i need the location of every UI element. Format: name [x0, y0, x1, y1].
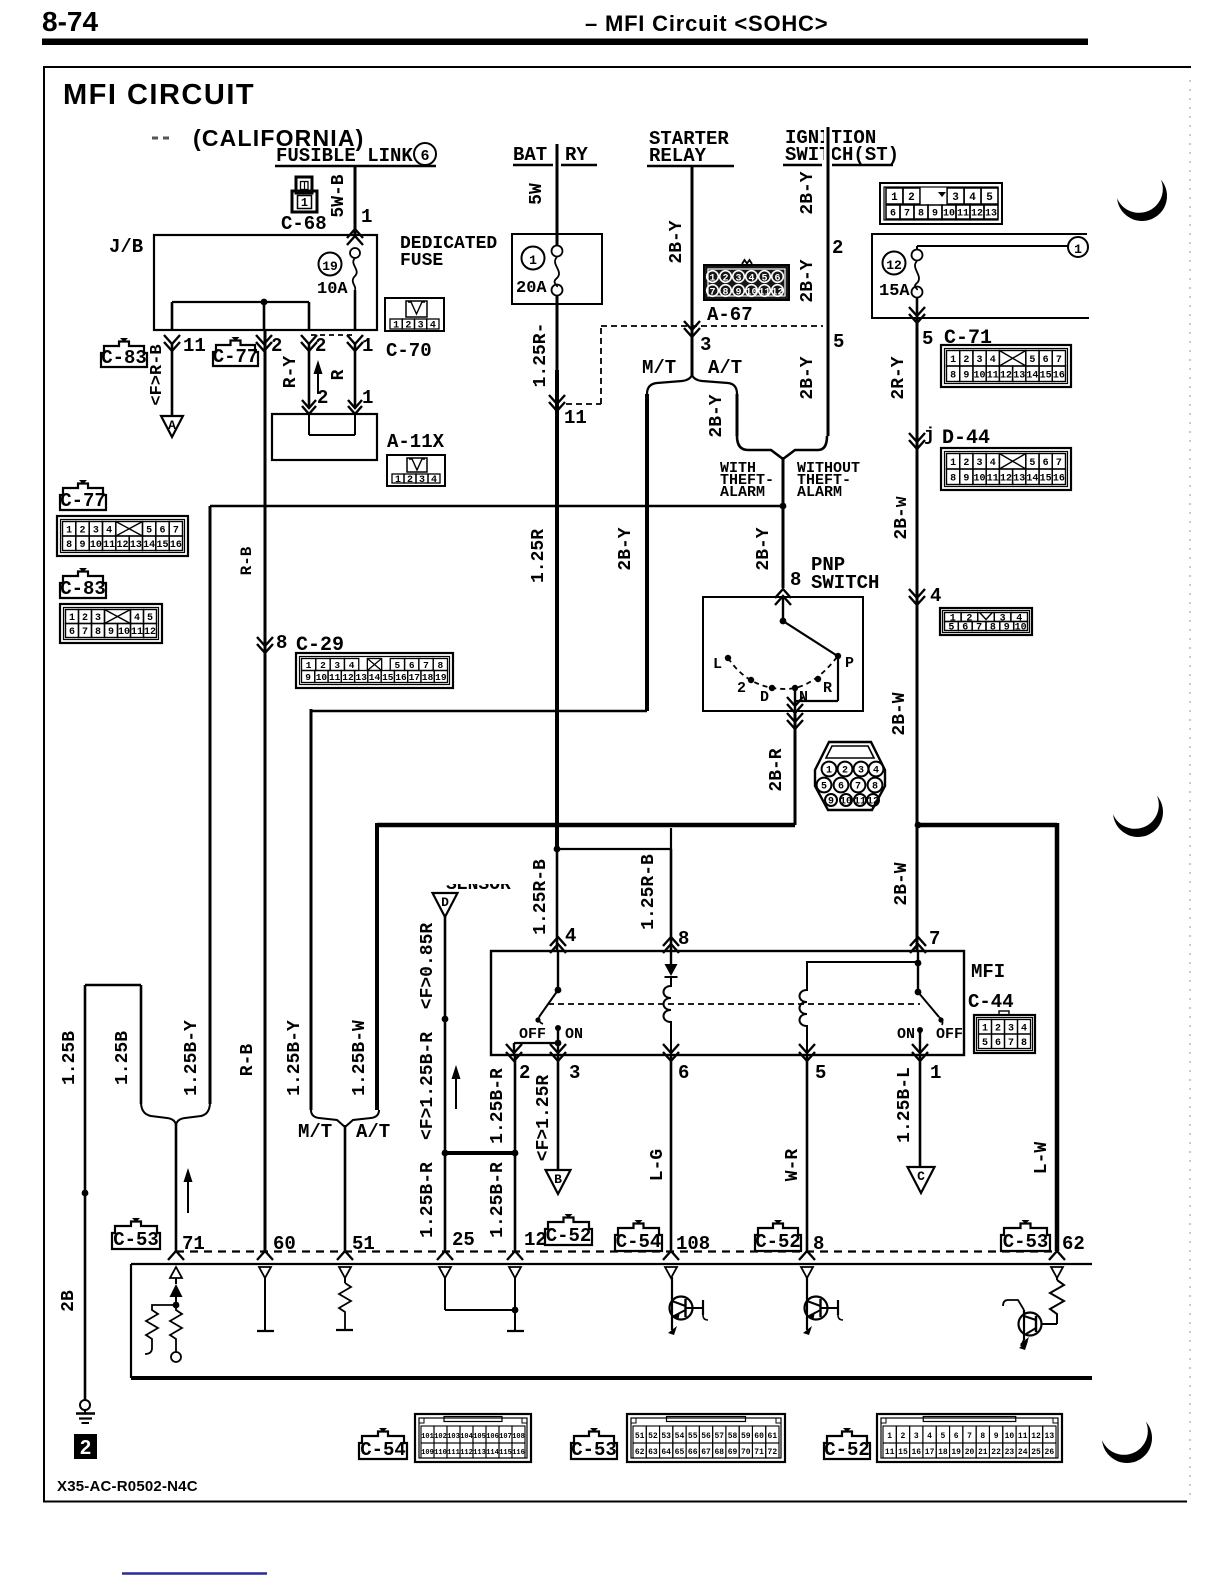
- fuse 12 element: [916, 246, 918, 250]
- svg-text:7: 7: [423, 660, 429, 671]
- svg-text:5W-B: 5W-B: [329, 174, 349, 217]
- MFI left switch pivot: [555, 987, 562, 994]
- svg-text:A-67: A-67: [707, 304, 753, 326]
- svg-text:R: R: [329, 369, 349, 380]
- svg-text:1.25B-L: 1.25B-L: [895, 1067, 915, 1143]
- PNP contact arc dashed: [728, 657, 837, 689]
- svg-text:A/T: A/T: [708, 357, 742, 379]
- connector label box C-52 big: [824, 1432, 870, 1460]
- arrow MFI pin6 out: [663, 1044, 679, 1053]
- svg-text:3: 3: [334, 660, 340, 671]
- svg-text:C-52: C-52: [755, 1231, 801, 1253]
- svg-text:11: 11: [1018, 1432, 1028, 1441]
- svg-text:70: 70: [741, 1448, 751, 1457]
- svg-text:11: 11: [758, 288, 770, 299]
- svg-text:1: 1: [709, 274, 715, 285]
- MFI OFF contact right: [938, 1017, 943, 1022]
- J/B wire pin2b drop: [308, 302, 311, 330]
- ECU resistor right: [170, 1305, 182, 1352]
- J/B wire pin11 drop: [171, 302, 174, 330]
- svg-text:19: 19: [322, 259, 338, 274]
- svg-text:8: 8: [276, 632, 287, 654]
- PNP contact 2: [748, 677, 754, 683]
- connector icon C-70: [385, 298, 444, 331]
- svg-text:C-83: C-83: [60, 578, 106, 600]
- binder punch hole bottom: [1102, 1413, 1152, 1463]
- wire 1.25B-L: [919, 1056, 922, 1167]
- svg-text:109: 109: [421, 1449, 434, 1457]
- svg-text:16: 16: [395, 672, 407, 683]
- svg-text:3: 3: [700, 334, 711, 356]
- svg-text:5: 5: [1029, 458, 1035, 469]
- svg-text:2: 2: [737, 680, 746, 697]
- svg-text:2: 2: [842, 765, 848, 776]
- PNP P wire down: [837, 656, 839, 701]
- svg-text:6: 6: [1043, 355, 1049, 366]
- svg-text:4: 4: [565, 925, 576, 947]
- ECU resistor 51: [339, 1283, 351, 1329]
- svg-text:ON: ON: [897, 1026, 915, 1043]
- svg-text:11: 11: [183, 335, 206, 357]
- svg-text:6: 6: [954, 1432, 959, 1441]
- svg-text:12: 12: [1000, 473, 1012, 484]
- svg-text:D: D: [441, 895, 449, 910]
- svg-text:1.25B-R: 1.25B-R: [488, 1162, 508, 1238]
- svg-text:6: 6: [409, 660, 415, 671]
- wire R-Y: [308, 344, 311, 406]
- svg-text:9: 9: [963, 370, 969, 381]
- svg-text:105: 105: [473, 1433, 486, 1441]
- svg-text:1: 1: [930, 1062, 941, 1084]
- svg-text:3: 3: [419, 475, 425, 486]
- svg-text:4: 4: [990, 355, 996, 366]
- svg-text:10: 10: [840, 796, 852, 807]
- svg-text:13: 13: [985, 209, 997, 220]
- svg-text:4: 4: [430, 321, 436, 332]
- svg-text:8: 8: [950, 473, 956, 484]
- arrow into A-11X pin1: [348, 400, 362, 408]
- svg-text:8-74: 8-74: [42, 6, 98, 37]
- svg-text:7: 7: [904, 209, 910, 220]
- wire F R-B to ground A: [171, 344, 174, 416]
- svg-text:C-53: C-53: [1003, 1231, 1049, 1253]
- svg-text:8: 8: [95, 627, 101, 638]
- svg-text:SWITCH(ST): SWITCH(ST): [785, 144, 899, 166]
- svg-text:2: 2: [908, 192, 915, 204]
- svg-text:12: 12: [971, 209, 983, 220]
- svg-text:23: 23: [1005, 1448, 1015, 1457]
- svg-text:SWITCH: SWITCH: [811, 572, 879, 594]
- ECU diode 71: [170, 1284, 183, 1297]
- wire 2B-R: [794, 711, 797, 825]
- svg-text:1: 1: [66, 525, 72, 536]
- connector label box C-52 right: [755, 1224, 801, 1252]
- page right edge faint line: [1189, 80, 1191, 1498]
- svg-text:5: 5: [940, 1432, 945, 1441]
- arrow up beside R-Y: [317, 370, 319, 394]
- wire bus to C-53 62: [918, 823, 1057, 828]
- junction block J/B box: [154, 235, 377, 330]
- svg-text:1: 1: [950, 458, 956, 469]
- svg-text:3: 3: [418, 321, 424, 332]
- svg-text:64: 64: [661, 1448, 671, 1457]
- svg-text:10: 10: [316, 672, 328, 683]
- svg-text:17: 17: [409, 672, 421, 683]
- ground triangle B: [546, 1170, 571, 1194]
- svg-text:11: 11: [564, 407, 587, 429]
- ECU terminal circle: [171, 1352, 181, 1362]
- svg-text:8: 8: [66, 540, 72, 551]
- svg-text:6: 6: [420, 148, 429, 165]
- connector label box C-54 mid: [615, 1224, 662, 1252]
- svg-text:12: 12: [116, 540, 128, 551]
- svg-text:2: 2: [407, 475, 413, 486]
- connector C-68 symbol: [296, 177, 312, 193]
- svg-text:2B-Y: 2B-Y: [707, 394, 727, 437]
- svg-text:<F>1.25R: <F>1.25R: [534, 1075, 554, 1162]
- svg-text:10: 10: [974, 473, 986, 484]
- svg-text:10: 10: [745, 288, 757, 299]
- arrow pin 8b: [799, 1251, 815, 1260]
- svg-text:12: 12: [1031, 1432, 1041, 1441]
- MFI ON contact right: [917, 1027, 923, 1033]
- svg-text:6: 6: [678, 1062, 689, 1084]
- MFI ON contact left: [555, 1025, 561, 1031]
- merge brace A/T and ignition: [737, 436, 827, 459]
- svg-text:MFI: MFI: [971, 961, 1005, 983]
- arrow PNP output: [787, 697, 803, 706]
- connector icon C-54 big: [415, 1414, 531, 1462]
- arrow MFI pin7: [910, 944, 926, 953]
- svg-text:8: 8: [990, 623, 996, 634]
- svg-text:20A: 20A: [516, 279, 547, 298]
- svg-text:A-11X: A-11X: [387, 431, 445, 453]
- svg-text:2: 2: [320, 660, 326, 671]
- svg-text:16: 16: [1053, 473, 1065, 484]
- svg-text:9: 9: [932, 209, 938, 220]
- connector icon C-53 big: [627, 1414, 785, 1462]
- svg-text:108: 108: [512, 1433, 525, 1441]
- svg-text:C-54: C-54: [616, 1231, 662, 1253]
- junction dot sensor: [442, 1016, 449, 1023]
- svg-text:6: 6: [774, 274, 780, 285]
- svg-text:5: 5: [146, 525, 152, 536]
- connector icon D-44: [941, 448, 1071, 490]
- wire 2B-W lower: [916, 825, 919, 951]
- svg-text:5: 5: [922, 328, 933, 350]
- svg-text:10A: 10A: [317, 280, 348, 299]
- wire R: [354, 344, 357, 406]
- svg-text:110: 110: [434, 1449, 447, 1457]
- connector icon C-29: [296, 653, 453, 688]
- svg-text:7: 7: [1056, 458, 1062, 469]
- svg-text:17: 17: [925, 1448, 935, 1457]
- MFI right switch pivot: [915, 989, 922, 996]
- MFI left out junction: [555, 1040, 562, 1047]
- arrow pin 62: [1049, 1251, 1065, 1260]
- relay box A-11X: [272, 414, 377, 460]
- svg-text:4: 4: [748, 274, 754, 285]
- svg-text:L: L: [713, 656, 722, 673]
- ECU transistor Q3: [1019, 1313, 1042, 1336]
- ECU transistor Q1: [670, 1297, 693, 1320]
- ground triangle C: [907, 1167, 934, 1193]
- svg-text:<F>R-B: <F>R-B: [148, 344, 167, 405]
- starter relay underline: [647, 165, 734, 168]
- wire 2B-Y M/T branch: [645, 394, 649, 711]
- svg-text:5: 5: [1029, 355, 1035, 366]
- svg-text:6: 6: [69, 627, 75, 638]
- svg-text:69: 69: [728, 1448, 738, 1457]
- arrow pin 108: [663, 1251, 679, 1260]
- svg-text:1: 1: [306, 660, 312, 671]
- svg-text:D-44: D-44: [942, 427, 990, 450]
- ECU pin 71 triangle: [170, 1267, 182, 1278]
- arrow into J/B top: [347, 236, 363, 245]
- dashed link battery: [566, 403, 601, 405]
- svg-text:C-68: C-68: [281, 213, 327, 235]
- svg-text:2: 2: [405, 321, 411, 332]
- arrow MFI pin3 out: [550, 1044, 566, 1053]
- wire 1.25B-W drop x377: [375, 823, 379, 1110]
- svg-text:2B-Y: 2B-Y: [798, 171, 818, 214]
- svg-text:A/T: A/T: [356, 1121, 390, 1143]
- svg-text:6: 6: [838, 781, 844, 792]
- svg-text:8: 8: [918, 209, 924, 220]
- arrow pin 11 battery wire: [549, 395, 565, 404]
- svg-text:2B: 2B: [59, 1290, 79, 1312]
- battery fuse box: [512, 234, 602, 304]
- ECU pin 25 link: [445, 1309, 515, 1311]
- svg-text:C-77: C-77: [60, 490, 106, 512]
- svg-text:102: 102: [434, 1433, 447, 1441]
- svg-text:10: 10: [974, 370, 986, 381]
- fuse 19 element: [350, 248, 360, 258]
- arrow pin 3 starter: [684, 321, 700, 330]
- svg-text:7: 7: [1008, 1038, 1014, 1049]
- svg-text:11: 11: [854, 796, 866, 807]
- svg-text:15: 15: [1040, 370, 1052, 381]
- wire 2B-Y starter relay: [691, 166, 694, 376]
- svg-text:8: 8: [790, 569, 801, 591]
- svg-text:1: 1: [826, 765, 832, 776]
- PNP switch box: [703, 597, 863, 711]
- svg-text:13: 13: [130, 540, 142, 551]
- svg-text:15: 15: [898, 1448, 908, 1457]
- svg-text:C-53: C-53: [571, 1439, 617, 1461]
- fuse 19 circle label: [319, 253, 342, 276]
- svg-text:111: 111: [447, 1449, 460, 1457]
- wire 1.25B-R to pin25: [444, 1153, 447, 1251]
- svg-text:4: 4: [349, 660, 355, 671]
- MFI pin1 wire: [919, 1030, 921, 1056]
- svg-text:72: 72: [768, 1448, 778, 1457]
- svg-text:9: 9: [994, 1432, 999, 1441]
- svg-text:W-R: W-R: [783, 1149, 803, 1182]
- PNP wire to pivot: [782, 597, 784, 621]
- svg-text:3: 3: [914, 1432, 919, 1441]
- junction dot 2B: [82, 1190, 89, 1197]
- dashed link pin2b-pin1: [311, 334, 353, 336]
- svg-text:116: 116: [512, 1449, 525, 1457]
- arrow up beside 1.25B-R: [455, 1075, 457, 1109]
- svg-text:14: 14: [1026, 473, 1038, 484]
- wire 1.25R-B branch: [557, 848, 671, 850]
- wire 1.25R-B pin4: [556, 849, 559, 951]
- ECU pin 51 triangle: [339, 1267, 351, 1278]
- svg-text:8: 8: [872, 781, 878, 792]
- svg-text:1.25B: 1.25B: [60, 1031, 80, 1085]
- connector label box C-53 left: [112, 1222, 160, 1250]
- svg-text:10: 10: [1005, 1432, 1015, 1441]
- svg-text:10: 10: [1015, 623, 1027, 634]
- svg-text:7: 7: [82, 627, 88, 638]
- svg-text:107: 107: [499, 1433, 512, 1441]
- svg-text:ALARM: ALARM: [797, 484, 842, 501]
- svg-text:3: 3: [1008, 1023, 1014, 1034]
- page footnote 2 box: [74, 1434, 97, 1459]
- svg-text:j: j: [924, 426, 935, 446]
- svg-text:61: 61: [768, 1432, 778, 1441]
- svg-text:C-44: C-44: [968, 991, 1014, 1013]
- svg-text:115: 115: [499, 1449, 512, 1457]
- MFI pin7 wire: [917, 951, 919, 992]
- svg-text:112: 112: [460, 1449, 473, 1457]
- MFI right switch arm: [918, 992, 939, 1017]
- connector icon C-77: [57, 516, 188, 556]
- arrow pin 25: [437, 1251, 453, 1260]
- svg-text:2B-Y: 2B-Y: [667, 220, 687, 263]
- wire horizontal bus y506: [210, 505, 783, 508]
- svg-text:6: 6: [995, 1038, 1001, 1049]
- svg-text:5: 5: [948, 623, 954, 634]
- svg-text:5: 5: [761, 274, 767, 285]
- svg-text:20: 20: [965, 1448, 975, 1457]
- svg-text:6: 6: [1043, 458, 1049, 469]
- brace M/T A/T merge: [311, 1110, 379, 1127]
- svg-text:12: 12: [144, 627, 156, 638]
- svg-text:6: 6: [890, 209, 896, 220]
- svg-text:C-71: C-71: [944, 327, 992, 350]
- sensor triangle D: [433, 893, 458, 917]
- svg-text:15A: 15A: [879, 282, 910, 301]
- svg-text:1.25R: 1.25R: [529, 529, 549, 583]
- wire 2B-R bus horizontal: [377, 823, 795, 828]
- svg-text:1: 1: [362, 335, 373, 357]
- svg-text:18: 18: [938, 1448, 948, 1457]
- connector label box C-83: [60, 572, 106, 599]
- svg-text:J/B: J/B: [109, 236, 143, 258]
- svg-text:51: 51: [635, 1432, 645, 1441]
- svg-text:66: 66: [688, 1448, 698, 1457]
- svg-text:9: 9: [963, 473, 969, 484]
- PNP switch arm to P: [783, 621, 836, 655]
- svg-text:R: R: [823, 680, 832, 697]
- connector label box C-53 right: [1001, 1224, 1050, 1252]
- svg-text:7: 7: [173, 525, 179, 536]
- svg-text:7: 7: [976, 623, 982, 634]
- arrow MFI pin5 out: [799, 1044, 815, 1053]
- ECU resistor 62: [1050, 1280, 1064, 1324]
- connector icon ignition 13pin: [880, 183, 1002, 224]
- svg-text:1.25B-Y: 1.25B-Y: [182, 1020, 202, 1096]
- svg-text:9: 9: [79, 540, 85, 551]
- svg-text:ALARM: ALARM: [720, 484, 765, 501]
- svg-text:22: 22: [991, 1448, 1001, 1457]
- svg-text:5: 5: [815, 1062, 826, 1084]
- svg-text:11: 11: [329, 672, 341, 683]
- svg-text:68: 68: [714, 1448, 724, 1457]
- svg-text:1.25B-R: 1.25B-R: [418, 1162, 438, 1238]
- svg-text:1: 1: [393, 321, 399, 332]
- svg-text:C-70: C-70: [386, 340, 432, 362]
- svg-text:2: 2: [317, 387, 328, 409]
- arrow MFI pin2 out: [506, 1044, 522, 1053]
- connector label box C-83 top: [101, 342, 147, 368]
- fuse 1 element: [552, 246, 563, 257]
- svg-text:X35-AC-R0502-N4C: X35-AC-R0502-N4C: [57, 1478, 198, 1495]
- svg-text:5W: 5W: [527, 183, 547, 205]
- svg-text:1: 1: [301, 196, 308, 210]
- svg-text:5: 5: [821, 781, 827, 792]
- svg-text:C: C: [917, 1169, 925, 1184]
- connector label box C-52 mid: [545, 1218, 592, 1246]
- svg-text:1: 1: [361, 206, 372, 228]
- arrow pin 60: [257, 1251, 273, 1260]
- svg-text:2B-R: 2B-R: [767, 748, 787, 791]
- svg-text:1.25B-W: 1.25B-W: [350, 1020, 370, 1096]
- svg-text:14: 14: [369, 672, 381, 683]
- svg-text:7: 7: [929, 928, 940, 950]
- wire L-G: [670, 1056, 673, 1251]
- wire 5W-B from fusible link: [354, 166, 357, 236]
- svg-text:60: 60: [754, 1432, 764, 1441]
- wire bus 1.25B-R: [445, 1151, 515, 1155]
- dedicated fuse box: [872, 234, 1089, 318]
- MFI left switch arm: [539, 990, 558, 1017]
- arrow MFI pin1 out: [912, 1044, 928, 1053]
- svg-text:2: 2: [79, 525, 85, 536]
- wire 1.25R-B pin8: [670, 849, 673, 951]
- connector label box C-53 big: [571, 1432, 617, 1460]
- svg-text:3: 3: [569, 1062, 580, 1084]
- svg-text:2R-Y: 2R-Y: [889, 356, 909, 399]
- svg-text:8: 8: [1021, 1038, 1027, 1049]
- svg-text:25: 25: [452, 1229, 475, 1251]
- svg-text:2: 2: [963, 355, 969, 366]
- svg-text:25: 25: [1031, 1448, 1041, 1457]
- svg-text:4: 4: [134, 613, 140, 624]
- svg-text:21: 21: [978, 1448, 988, 1457]
- wire 1.25B fork: [85, 984, 141, 987]
- arrow J/B pin 2b: [301, 335, 317, 344]
- wire 2B-Y below merge: [782, 457, 785, 588]
- wire 1.25B-R pin12: [514, 1056, 517, 1251]
- arrow MFI pin4: [550, 944, 566, 953]
- wire 2B-W upper: [916, 432, 919, 590]
- svg-text:1: 1: [529, 253, 537, 268]
- svg-text:15: 15: [1040, 473, 1052, 484]
- svg-text:3: 3: [977, 355, 983, 366]
- connector label box C-77 top: [213, 341, 258, 367]
- ECU junction 71: [173, 1302, 180, 1309]
- svg-text:58: 58: [728, 1432, 738, 1441]
- wire 2B-W x1057: [1055, 823, 1060, 1251]
- arrow J/B pin 1: [347, 335, 363, 344]
- svg-text:2B-w: 2B-w: [892, 496, 912, 539]
- svg-text:1.25R-: 1.25R-: [531, 323, 551, 388]
- svg-text:12: 12: [1000, 370, 1012, 381]
